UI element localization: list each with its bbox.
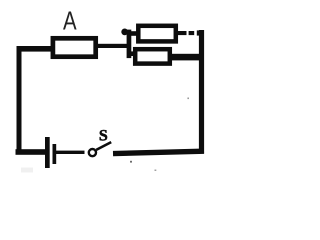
wire: stub right of R1 (177, 31, 187, 35)
svg-text:S: S (99, 128, 108, 145)
switch S pivot circle (89, 149, 96, 156)
wire: left vertical (17, 46, 22, 155)
wire: battery to switch pivot (56, 151, 85, 154)
battery positive plate (long) (45, 137, 50, 168)
node dot at junction top (121, 29, 128, 36)
wire: corner cap top of right bar (197, 30, 200, 35)
ammeter A (box symbol) (53, 38, 96, 56)
wire: top-left horizontal from corner to box A (17, 46, 54, 52)
switch S blade (96, 142, 111, 150)
wire: top branch to resistor R1 (129, 31, 139, 36)
wire: bottom-left horizontal to battery (16, 149, 47, 155)
wire: box A to junction (96, 44, 127, 48)
node: left junction bar (127, 30, 132, 58)
wire: dash segment before right bar (189, 31, 195, 35)
wire: right vertical bar (199, 30, 204, 154)
wire: bottom-right horizontal to right bar (113, 151, 204, 153)
resistor R1 (top box) (138, 26, 176, 42)
battery negative plate (short) (53, 144, 57, 164)
resistor R2 (bottom box) (135, 49, 170, 63)
wire: thick output of R2 to right bar (171, 54, 201, 61)
svg-text:A: A (63, 6, 77, 36)
wire: bottom branch to resistor R2 (130, 51, 137, 56)
